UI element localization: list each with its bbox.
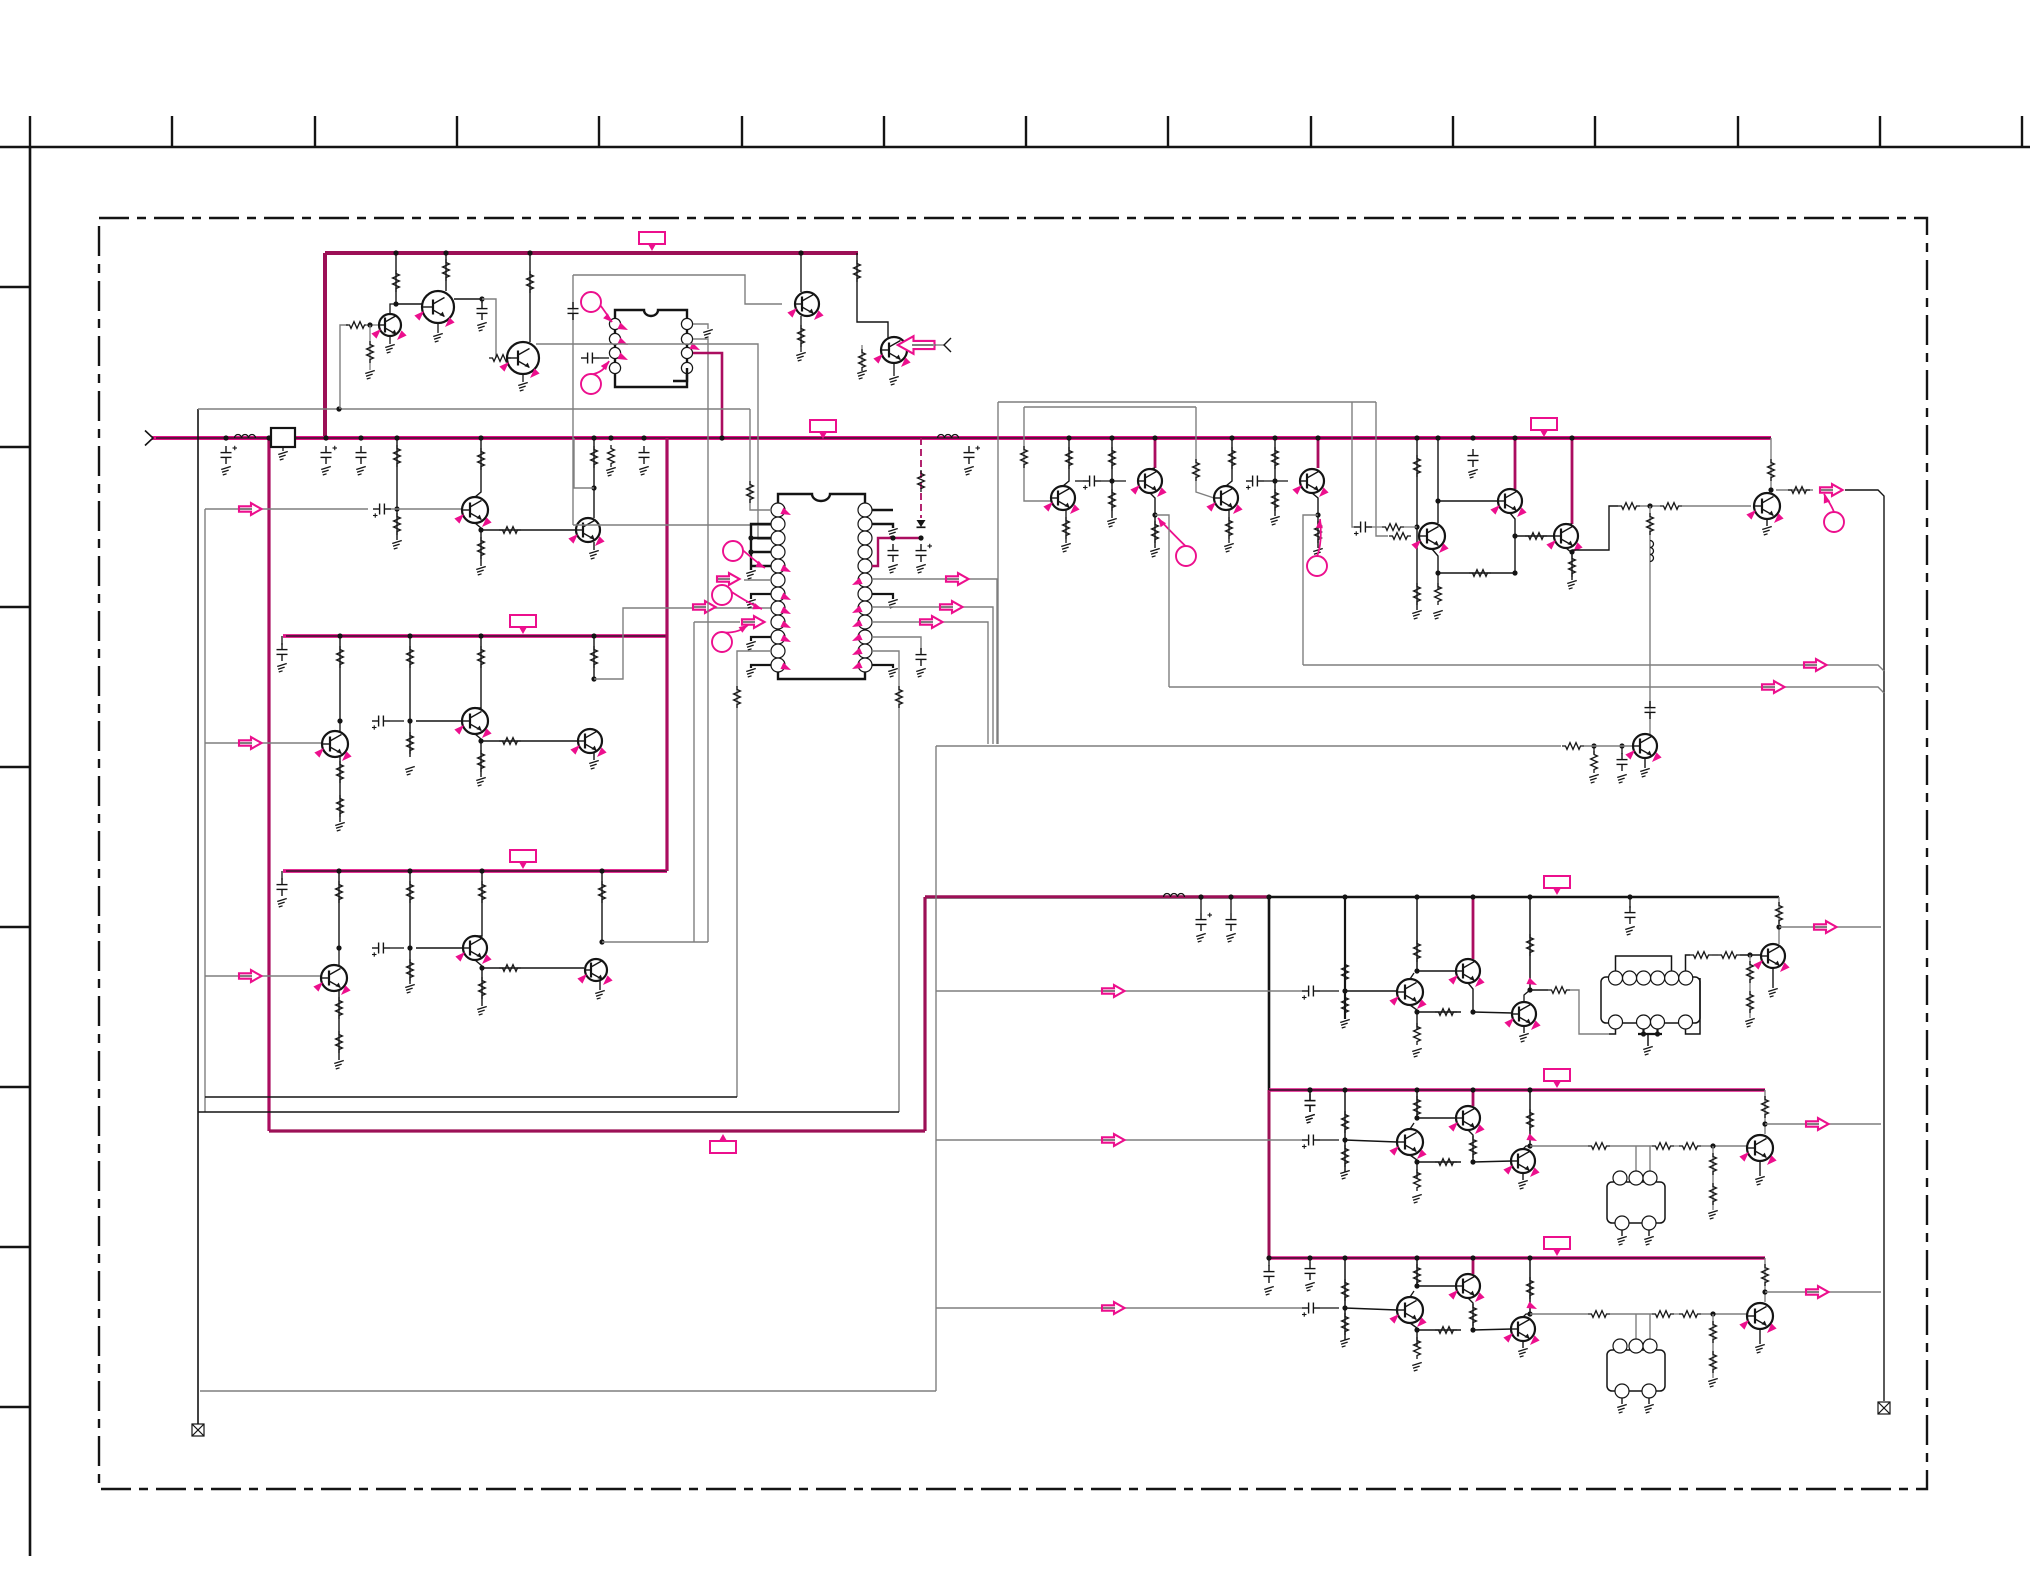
- junction: [1527, 1087, 1532, 1092]
- resistor R10: [591, 446, 598, 468]
- wire mid link y1097: [205, 1096, 737, 1098]
- wire emitter node below Q: [1410, 1323, 1417, 1346]
- wire Q2 emitter: [437, 323, 439, 333]
- junction: [1435, 570, 1440, 575]
- wire Q1 emitter: [389, 336, 391, 344]
- resistor R2d: [1470, 1136, 1477, 1158]
- transistor Q22: [1633, 734, 1657, 758]
- wire Q c collector: [1523, 1146, 1530, 1149]
- junction bus: [1470, 435, 1475, 440]
- junction B3 bus: [407, 868, 412, 873]
- wire feedback to x1515: [1438, 572, 1515, 574]
- capacitor C10: [277, 643, 288, 661]
- transistor Q7: [576, 518, 600, 542]
- wire U2 pin11R column: [872, 651, 899, 1112]
- wire y746 trunk: [936, 745, 1561, 747]
- ground: [1226, 933, 1236, 942]
- capacitor C28: [1226, 913, 1237, 931]
- wire Q18 base feed from loop A: [1376, 402, 1388, 536]
- signal arrow U2 pin9: [741, 621, 756, 623]
- resistor R3d: [1470, 1304, 1477, 1326]
- test point marks Q29: [1503, 1162, 1515, 1174]
- ground: [477, 1006, 487, 1015]
- wire U2 pin9 feed: [694, 621, 740, 623]
- wire Q16 emitter chain: [1228, 510, 1230, 543]
- resistor R31: [854, 260, 861, 282]
- junction: [1414, 1159, 1419, 1164]
- junction: [1315, 512, 1320, 517]
- resistor R27: [479, 977, 486, 999]
- resistor R3g: [1527, 1277, 1534, 1299]
- wire Q23-Q25 link: [1417, 1011, 1461, 1013]
- ground: [335, 822, 345, 831]
- resistor R44: [1229, 447, 1236, 469]
- resistor R70: [1548, 987, 1570, 994]
- wire bottom return y1391: [200, 1390, 936, 1392]
- junction: [1527, 1143, 1532, 1148]
- wire Q d emitter: [1759, 1161, 1761, 1176]
- resistor R63: [1591, 751, 1598, 773]
- U2 pin marks right: [850, 578, 862, 589]
- U1 pin marks: [617, 323, 629, 334]
- test point marks Q32: [1448, 1287, 1460, 1299]
- wire Q1 collector node: [390, 304, 396, 314]
- junction: [1198, 894, 1203, 899]
- ground U2 pin7: [746, 599, 756, 608]
- callout balloon U2 pin5: [733, 542, 765, 569]
- wire cap to node: [390, 947, 404, 949]
- wire U1 pin4 black stub: [673, 368, 687, 381]
- drawing frame left ruler line: [29, 147, 32, 1556]
- wire Q11 emitter chain: [338, 991, 340, 1060]
- wire Q6 emitter node: [475, 523, 481, 566]
- junction: [1307, 1087, 1312, 1092]
- capacitor C dec1: [639, 446, 650, 464]
- junction: [1307, 1087, 1312, 1092]
- ground: [1589, 774, 1599, 783]
- ground: [1644, 1236, 1654, 1245]
- ground: [334, 1060, 344, 1069]
- resistor R24: [336, 1031, 343, 1053]
- wire to Q d base: [1701, 1145, 1747, 1147]
- resistor R17: [499, 738, 521, 745]
- test point marks Q5: [873, 351, 885, 363]
- junction: [1647, 503, 1652, 508]
- wire cap to Q17: [1264, 480, 1288, 482]
- ground: [916, 668, 926, 677]
- resistor R38: [1066, 447, 1073, 469]
- ground U1 pin1: [703, 329, 713, 338]
- resistor R57: [1618, 503, 1640, 510]
- test point marks Q22: [1625, 747, 1637, 759]
- wire link to Q c: [1417, 1329, 1461, 1331]
- junction: [1342, 988, 1347, 993]
- junction: [1762, 1289, 1767, 1294]
- junction: [1655, 1031, 1660, 1036]
- ground U2 pin10: [746, 641, 756, 650]
- wire Q9 collector feed: [475, 636, 481, 708]
- wire cap to node: [390, 720, 404, 722]
- test point marks Q19: [1490, 502, 1502, 514]
- wire U2 pin8R east: [872, 607, 993, 744]
- transistor Q12: [463, 936, 487, 960]
- wire Q15 emitter node: [1150, 493, 1155, 548]
- junction: [1470, 1009, 1475, 1014]
- ground: [1468, 469, 1478, 478]
- wire filter right pin up: [1649, 1146, 1651, 1171]
- net label BL1: [1544, 876, 1570, 888]
- signal arrow block2 in: [1101, 1139, 1116, 1141]
- signal arrow Q21 out: [1819, 489, 1834, 491]
- capacitor C11: [372, 716, 390, 730]
- inductor L1: [235, 435, 256, 439]
- junction: [407, 718, 412, 723]
- wire supply drop: [1472, 1090, 1475, 1106]
- junction: [1470, 1327, 1475, 1332]
- junction: [1414, 435, 1419, 440]
- resistor R5: [489, 355, 511, 362]
- resistor R45: [1226, 517, 1233, 539]
- junction: [394, 435, 399, 440]
- resistor R12: [407, 646, 414, 668]
- wire loop A west vertical: [997, 402, 999, 744]
- wire between: [1674, 1145, 1679, 1147]
- callout balloon U1 pin1: [591, 293, 612, 323]
- test point marks Q3: [499, 359, 511, 371]
- resistor R75: [1776, 902, 1783, 924]
- junction: [1619, 743, 1624, 748]
- resistor R4: [443, 259, 450, 281]
- resistor R2g: [1527, 1109, 1534, 1131]
- resistor R62: [1562, 743, 1584, 750]
- junction: [1414, 968, 1419, 973]
- resistor R3l: [1710, 1351, 1717, 1373]
- resistor R39: [1063, 517, 1070, 539]
- wire Q4 emitter chain: [800, 316, 802, 352]
- capacitor C2b: [1302, 1135, 1320, 1149]
- junction: [1414, 1115, 1419, 1120]
- junction: [1641, 1031, 1646, 1036]
- junction: [1527, 987, 1532, 992]
- ground Q20: [1567, 580, 1577, 589]
- ground: [1305, 1114, 1315, 1123]
- wire loop A y402: [998, 401, 1376, 403]
- wire Q2 output node: [454, 298, 482, 300]
- resistor R41: [1109, 489, 1116, 511]
- test point marks Q24: [1448, 972, 1460, 984]
- ground Q15: [1150, 548, 1160, 557]
- capacitor C25: [1645, 701, 1656, 719]
- wire between resistors: [1712, 954, 1718, 956]
- wire node to Q23: [1345, 990, 1397, 992]
- resistor R36: [896, 686, 903, 708]
- test point marks Q25: [1504, 1015, 1516, 1027]
- drawing frame left ruler ticks: [0, 287, 30, 1407]
- junction: [1710, 1143, 1715, 1148]
- wire Q9 emitter node: [475, 734, 481, 777]
- signal arrow block3 in: [1101, 1307, 1116, 1309]
- test point marks Q6: [454, 511, 466, 523]
- resistor R71: [1690, 952, 1712, 959]
- wire Q17 supply drop: [1317, 438, 1320, 468]
- ground Q1: [385, 344, 395, 353]
- transistor Q30: [1747, 1135, 1773, 1161]
- resistor R68: [1435, 1009, 1457, 1016]
- wire C28 lead: [1230, 897, 1232, 913]
- resistor R35: [918, 470, 925, 492]
- junction: [1768, 487, 1773, 492]
- wire Q19-Q20 link: [1515, 535, 1554, 537]
- wire U2 pin10 stub: [751, 637, 771, 641]
- wire Q19 emitter node: [1510, 513, 1515, 573]
- ground Q21: [1762, 526, 1772, 535]
- resistor R8: [499, 527, 521, 534]
- junction: [591, 676, 596, 681]
- capacitor C2a: [1305, 1094, 1316, 1112]
- wire Q20 output to Q21: [1572, 506, 1618, 550]
- ground: [321, 466, 331, 475]
- resistor R7: [478, 448, 485, 470]
- diode D1: [917, 520, 926, 527]
- junction: [1342, 1087, 1347, 1092]
- resistor R2c: [1414, 1096, 1421, 1118]
- transistor Q1: [379, 314, 401, 336]
- wire cap to node: [1320, 1139, 1339, 1141]
- wire Q d emitter: [1759, 1329, 1761, 1344]
- wire feedback stub: [574, 438, 594, 488]
- junction: [1776, 924, 1781, 929]
- junction: [1066, 435, 1071, 440]
- junction: [1342, 1137, 1347, 1142]
- wire C29 lead: [1309, 1090, 1311, 1094]
- resistor R34: [734, 686, 741, 708]
- wire left trunk vertical: [197, 409, 199, 1424]
- ground: [1270, 516, 1280, 525]
- resistor R2f: [1435, 1159, 1457, 1166]
- wire collector link: [1410, 1123, 1414, 1129]
- wire U2 pin12 stub: [751, 665, 771, 668]
- wire U1 pin2 gray east: [693, 339, 708, 942]
- wire U2 pins2-5 comb: [751, 524, 771, 570]
- signal arrow U2 pin9R: [919, 621, 934, 623]
- drawing frame top ruler line: [0, 146, 2030, 149]
- wire to Q d base: [1701, 1313, 1747, 1315]
- wire block3 x1530 chain: [1529, 1258, 1531, 1314]
- wire Q18 emitter resistor: [1437, 573, 1439, 590]
- junction: [1342, 1255, 1347, 1260]
- U2 pin circles: [771, 503, 872, 672]
- resistor R2i: [1652, 1143, 1674, 1150]
- test point marks Q26: [1753, 957, 1765, 969]
- ground: [1644, 1404, 1654, 1413]
- transistor Q28: [1456, 1106, 1480, 1130]
- capacitor C in2: [321, 446, 338, 464]
- resistor R3: [393, 270, 400, 292]
- signal arrow into row A: [238, 508, 253, 510]
- wire R2 chain: [369, 325, 371, 370]
- wire Q26 collector node: [1778, 897, 1780, 944]
- wire x339 chain: [338, 871, 340, 948]
- junction bus: [1315, 435, 1320, 440]
- resistor R73: [1747, 961, 1754, 983]
- junction: [1527, 894, 1532, 899]
- ground: [1518, 1180, 1528, 1189]
- resistor R22: [407, 959, 414, 981]
- junction: [1307, 1255, 1312, 1260]
- test point marks Q20: [1546, 537, 1558, 549]
- wire U2 pin12R stub: [872, 665, 893, 668]
- ground U2 pin12: [746, 668, 756, 677]
- test point marks Q14: [1043, 499, 1055, 511]
- resistor R56: [1569, 555, 1576, 577]
- junction: [1512, 533, 1517, 538]
- wire filter right pin up: [1649, 1314, 1651, 1339]
- transistor Q34: [1747, 1303, 1773, 1329]
- inductor L2: [938, 435, 959, 439]
- signal arrow y687: [1761, 686, 1776, 688]
- wire top loop y275: [573, 275, 782, 304]
- ground: [477, 322, 487, 331]
- junction: [1414, 894, 1419, 899]
- junction: [1342, 894, 1347, 899]
- resistor R3a: [1342, 1279, 1349, 1301]
- wire to Q25 base: [1473, 1012, 1512, 1013]
- wire x667 vertical: [665, 438, 668, 871]
- junction y409: [336, 406, 341, 411]
- wire mid link y1112: [198, 1111, 899, 1113]
- wire base node x1275: [1274, 438, 1276, 516]
- junction: [1109, 478, 1114, 483]
- wire cap to Q15: [1101, 480, 1126, 482]
- test point marks Q16: [1206, 499, 1218, 511]
- wire base node x1112: [1111, 438, 1113, 518]
- wire Q15 supply drop: [1154, 438, 1157, 468]
- signal arrow U2 pin6R: [945, 578, 960, 580]
- wire filter gnd stubs: [1621, 1230, 1623, 1236]
- capacitor C17: [888, 544, 899, 562]
- junction: [1435, 435, 1440, 440]
- node B2 second stage bus: [283, 634, 667, 638]
- transistor Q13: [585, 959, 607, 981]
- ground Q10: [589, 760, 599, 769]
- wire output chain east: [1530, 1145, 1588, 1147]
- wire cap chain to node: [1372, 526, 1382, 528]
- transistor Q20: [1554, 524, 1578, 548]
- wire U2 pin7 stub: [751, 594, 771, 599]
- resistor R9: [478, 537, 485, 559]
- wire R73 chain below Q26 base: [1749, 955, 1751, 1018]
- ground: [857, 370, 867, 379]
- net label B1+: [710, 1141, 736, 1153]
- transistor Q3: [507, 342, 539, 374]
- resistor R11: [337, 646, 344, 668]
- ground: [1305, 1282, 1315, 1291]
- junction: [367, 322, 372, 327]
- wire Q25 emitter: [1523, 1026, 1525, 1033]
- junction bus: [1512, 435, 1517, 440]
- junction top bus: [393, 250, 398, 255]
- resistor R dec1: [608, 445, 615, 467]
- transistor Q27: [1397, 1129, 1423, 1155]
- wire link to Q c: [1417, 1161, 1461, 1163]
- wire Q18 collector node: [1437, 438, 1439, 523]
- resistor R53: [1469, 570, 1491, 577]
- junction: [1470, 1159, 1475, 1164]
- ground U2 pin12R: [888, 668, 898, 677]
- wire cap to IC8 pin3: [599, 357, 609, 359]
- resistor R1: [346, 322, 368, 329]
- ground Q7: [589, 550, 599, 559]
- resistor R14: [337, 761, 344, 783]
- callout balloon Q17: [1317, 519, 1321, 557]
- signal arrow y665: [1803, 664, 1818, 666]
- wire Q14 collector: [1063, 438, 1069, 486]
- capacitor C32: [1625, 906, 1636, 924]
- signal arrow block1 in: [1101, 990, 1116, 992]
- wire magenta block feed x925: [924, 897, 927, 1131]
- ground Q5: [889, 376, 899, 385]
- junction: [1229, 435, 1234, 440]
- wire FL1 pin4 wrap: [1686, 978, 1701, 1034]
- junction bus: [1470, 1087, 1475, 1092]
- ground Q2: [433, 333, 443, 342]
- test point marks Q34: [1739, 1317, 1751, 1329]
- wire block1 input: [936, 990, 1302, 992]
- ground: [405, 766, 415, 775]
- resistor R51: [1382, 524, 1404, 531]
- wire x594 row B output: [593, 636, 595, 679]
- wire emitter node below Q: [1410, 1155, 1417, 1178]
- wire Q17 emitter node: [1312, 493, 1318, 548]
- wire filter drop: [1635, 1146, 1637, 1171]
- ground Q22: [1640, 768, 1650, 777]
- transistor Q16: [1214, 486, 1238, 510]
- junction: [608, 435, 613, 440]
- wire C3a lead: [1309, 1258, 1311, 1262]
- wire FL1 output: [1686, 955, 1691, 971]
- wire U2 pin1 feed: [750, 409, 771, 510]
- resistor R32: [859, 349, 866, 371]
- wire supply branch x925: [923, 897, 926, 1131]
- node B+ main supply bus: [152, 436, 1771, 440]
- wire Q24 base: [1417, 970, 1456, 972]
- wire Q20 emitter node: [1566, 548, 1572, 580]
- junction: [918, 535, 923, 540]
- node VCC1 top supply bus: [325, 251, 858, 255]
- resistor R3m: [1762, 1264, 1769, 1286]
- transistor Q25: [1512, 1002, 1536, 1026]
- signal arrow into row B: [238, 742, 253, 744]
- wire Q24 emitter down: [1468, 983, 1473, 1012]
- capacitor C12: [277, 878, 288, 896]
- wire to Q c base: [1473, 1161, 1512, 1162]
- ground: [1755, 1344, 1765, 1353]
- ground: [888, 564, 898, 573]
- junction bus: [1569, 435, 1574, 440]
- test point marks Q13: [577, 971, 589, 983]
- wire C2a lead: [1309, 1090, 1311, 1094]
- wire Q2 to Q3 link: [482, 299, 496, 358]
- resistor R54: [1435, 583, 1442, 605]
- wire Q11 input: [205, 975, 321, 977]
- inductor L4: [1164, 894, 1185, 897]
- capacitor C27: [1196, 913, 1213, 931]
- wire C32 lead: [1629, 897, 1631, 908]
- ground: [356, 466, 366, 475]
- wire Q19 supply drop: [1514, 438, 1517, 489]
- junction: [337, 718, 342, 723]
- wire Q22 base: [1584, 745, 1633, 747]
